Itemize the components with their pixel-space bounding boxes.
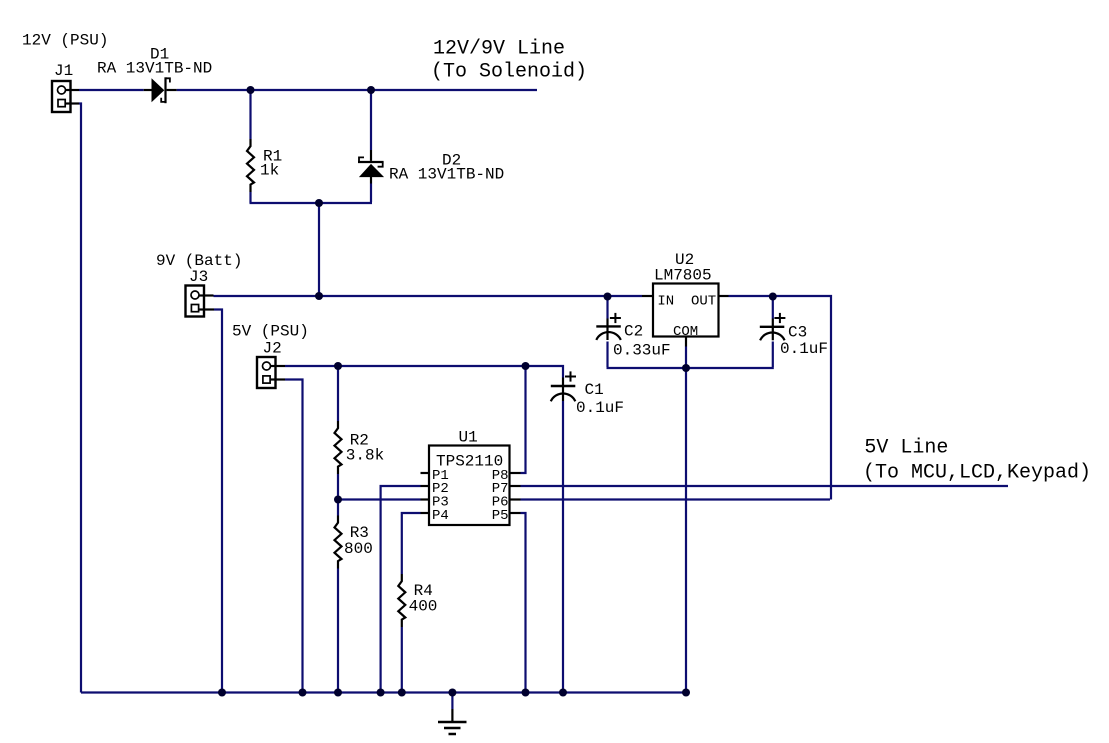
svg-text:J3: J3 <box>189 268 208 286</box>
svg-text:OUT: OUT <box>691 293 716 309</box>
svg-text:5V (PSU): 5V (PSU) <box>232 322 309 340</box>
svg-text:P5: P5 <box>492 508 509 524</box>
svg-text:9V (Batt): 9V (Batt) <box>156 252 242 270</box>
svg-text:12V (PSU): 12V (PSU) <box>22 32 108 50</box>
svg-text:C2: C2 <box>624 323 643 341</box>
svg-text:1k: 1k <box>260 161 279 179</box>
svg-text:RA 13V1TB-ND: RA 13V1TB-ND <box>97 60 212 78</box>
svg-text:U1: U1 <box>459 428 478 446</box>
svg-text:3.8k: 3.8k <box>346 447 384 465</box>
svg-text:(To Solenoid): (To Solenoid) <box>431 60 587 83</box>
svg-text:0.1uF: 0.1uF <box>780 340 828 358</box>
svg-text:(To MCU,LCD,Keypad): (To MCU,LCD,Keypad) <box>863 461 1091 484</box>
svg-text:P4: P4 <box>432 508 449 524</box>
svg-text:C1: C1 <box>585 381 604 399</box>
svg-text:400: 400 <box>409 598 438 616</box>
svg-text:800: 800 <box>344 540 373 558</box>
svg-text:J1: J1 <box>54 62 73 80</box>
svg-text:5V Line: 5V Line <box>864 436 948 459</box>
svg-text:COM: COM <box>673 324 698 340</box>
svg-text:LM7805: LM7805 <box>654 267 712 285</box>
svg-text:IN: IN <box>657 293 674 309</box>
svg-text:12V/9V Line: 12V/9V Line <box>433 37 565 60</box>
svg-text:0.33uF: 0.33uF <box>613 341 671 359</box>
svg-text:J2: J2 <box>263 339 282 357</box>
svg-text:RA 13V1TB-ND: RA 13V1TB-ND <box>389 166 504 184</box>
svg-text:0.1uF: 0.1uF <box>576 399 624 417</box>
